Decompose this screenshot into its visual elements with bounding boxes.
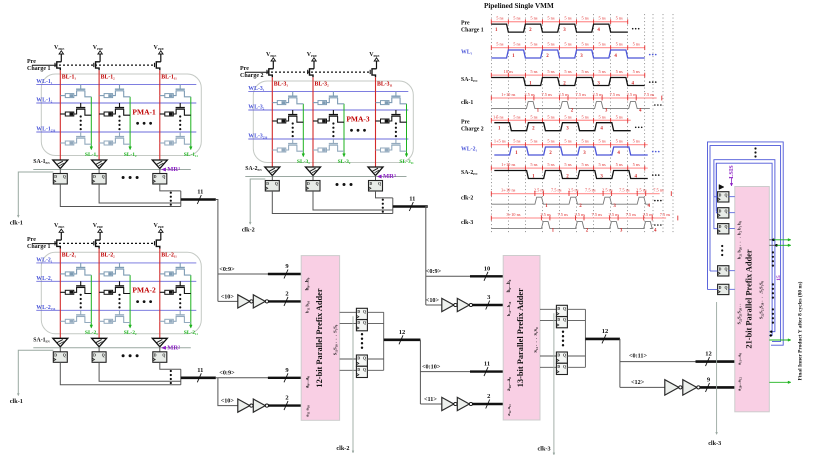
S output D flip-flop 4 bbox=[340, 369, 357, 371]
node a<10> input wire + inverter pair bbox=[218, 378, 238, 406]
svg-text:12: 12 bbox=[705, 351, 712, 358]
wire SL-12 source line bbox=[129, 97, 131, 148]
svg-text:5 ns: 5 ns bbox=[564, 69, 571, 74]
node a<12> wire + inverter pair bbox=[620, 386, 665, 388]
svg-text:Q: Q bbox=[563, 318, 566, 322]
dashed precharge gate line Pre Charge 1 bbox=[32, 64, 55, 66]
wire PMA-3 bus to 13-bit adder bbox=[426, 207, 428, 306]
svg-text:Q: Q bbox=[363, 368, 366, 372]
memristor cell R22 bbox=[119, 281, 121, 286]
clk-3 wire to LSIS bbox=[716, 302, 718, 433]
LSIS shift register feedback loops bbox=[708, 142, 784, 345]
svg-text:BL-31: BL-31 bbox=[274, 81, 289, 87]
S output dots bbox=[772, 251, 774, 253]
MR1 label bbox=[162, 168, 166, 171]
svg-text:2: 2 bbox=[285, 290, 288, 297]
svg-text:SL-21: SL-21 bbox=[85, 330, 98, 336]
svg-text:5 ns: 5 ns bbox=[513, 139, 520, 144]
memristor cell R12 bbox=[80, 281, 82, 286]
svg-text:PMA-1: PMA-1 bbox=[132, 107, 156, 116]
output bus 11 bits bbox=[181, 198, 216, 201]
sense amplifier SA column 1 bbox=[53, 338, 68, 347]
svg-text:<10>: <10> bbox=[426, 297, 440, 304]
svg-text:Q: Q bbox=[102, 175, 105, 179]
memristor cell R11 bbox=[80, 85, 82, 90]
wire PMA-2 bus to adder inputs bbox=[216, 377, 218, 379]
memristor cell R33 bbox=[179, 310, 181, 315]
svg-text:Pre: Pre bbox=[27, 237, 36, 243]
svg-text:clk-3: clk-3 bbox=[538, 446, 551, 453]
svg-text:LSIS: LSIS bbox=[728, 165, 735, 179]
svg-text:5 ns: 5 ns bbox=[496, 114, 503, 119]
memristor cell R11 bbox=[80, 263, 82, 268]
svg-text:Q: Q bbox=[275, 182, 278, 186]
svg-text:Q: Q bbox=[102, 353, 105, 357]
svg-text:Q: Q bbox=[316, 182, 319, 186]
svg-text:a10...a0: a10...a0 bbox=[507, 377, 512, 391]
memristor cell R22 bbox=[332, 110, 334, 115]
svg-text:WL1: WL1 bbox=[461, 50, 473, 56]
svg-text:7.5 ns: 7.5 ns bbox=[585, 188, 596, 193]
svg-text:SL-111: SL-111 bbox=[184, 152, 199, 158]
svg-text:7.5 ns: 7.5 ns bbox=[557, 212, 568, 217]
svg-text:D: D bbox=[93, 353, 96, 357]
svg-text:D: D bbox=[154, 353, 157, 357]
svg-text:5 ns: 5 ns bbox=[496, 16, 503, 21]
wire WL-22 word line bbox=[36, 280, 196, 282]
wire WL-21 word line bbox=[36, 262, 196, 264]
sense amplifier SA column 3 bbox=[368, 167, 383, 176]
S output D flip-flop (13-bit) 1 bbox=[540, 308, 556, 310]
svg-text:D: D bbox=[93, 175, 96, 179]
column dots bbox=[179, 115, 181, 117]
svg-text:11: 11 bbox=[484, 361, 490, 368]
svg-text:11: 11 bbox=[197, 189, 203, 196]
svg-text:Q: Q bbox=[725, 267, 728, 271]
column dots bbox=[292, 122, 294, 124]
D flip-flop column 3 bbox=[369, 181, 383, 192]
svg-text:clk-3: clk-3 bbox=[461, 220, 473, 226]
svg-text:10 ns: 10 ns bbox=[504, 69, 514, 74]
memristor cell R13 bbox=[292, 139, 294, 144]
svg-text:7.5 ns: 7.5 ns bbox=[644, 92, 655, 97]
wire WL-1256 word line bbox=[36, 131, 196, 133]
wire BL-311 bit line bbox=[375, 77, 377, 167]
column dots bbox=[179, 294, 181, 296]
D flip-flop column 1 bbox=[53, 174, 67, 185]
svg-text:clk-3: clk-3 bbox=[708, 440, 721, 447]
wire PMA-1 bus to adder inputs bbox=[216, 200, 218, 302]
svg-text:WL-3256: WL-3256 bbox=[248, 134, 267, 140]
svg-text:SL-11: SL-11 bbox=[85, 152, 98, 158]
svg-text:5 ns: 5 ns bbox=[530, 42, 537, 47]
svg-text:2.5 ns: 2.5 ns bbox=[558, 92, 569, 97]
svg-text:D: D bbox=[557, 365, 560, 369]
svg-text:VPRE: VPRE bbox=[93, 223, 103, 229]
svg-text:21-bit Parallel Prefix Adder: 21-bit Parallel Prefix Adder bbox=[745, 249, 754, 348]
wire BL-211 bit line bbox=[159, 249, 161, 339]
svg-text:5 ns: 5 ns bbox=[581, 42, 588, 47]
svg-text:b12...b10: b12...b10 bbox=[506, 301, 512, 316]
node b<10> input wire + inverter pair bbox=[218, 300, 238, 302]
svg-text:WL-22: WL-22 bbox=[36, 276, 53, 282]
12-bit parallel prefix adder U1 bbox=[301, 256, 339, 421]
S output D flip-flop (13-bit) 2 bbox=[540, 320, 556, 322]
svg-text:5 ns: 5 ns bbox=[616, 139, 623, 144]
svg-text:SA-1EN: SA-1EN bbox=[461, 77, 478, 83]
svg-text:Charge 1: Charge 1 bbox=[27, 244, 51, 250]
svg-text:b11 b10: b11 b10 bbox=[305, 300, 311, 313]
S output D flip-flop 1 bbox=[340, 311, 357, 313]
memristor cell R33 bbox=[395, 139, 397, 144]
memristor cell R32 bbox=[179, 281, 181, 286]
svg-text:<10>: <10> bbox=[221, 294, 235, 301]
svg-text:5 ns: 5 ns bbox=[599, 69, 606, 74]
wire WL-11 word line bbox=[36, 84, 196, 86]
svg-text:a12 a11: a12 a11 bbox=[506, 404, 512, 416]
clk-2 wire to flip-flops bbox=[352, 316, 354, 452]
svg-text:Q: Q bbox=[563, 365, 566, 369]
svg-text:D: D bbox=[307, 182, 310, 186]
precharge PMOS transistor column 3 bbox=[156, 62, 161, 71]
memristor cell R23 bbox=[119, 310, 121, 315]
svg-text:PMA-3: PMA-3 bbox=[346, 114, 370, 123]
svg-text:5 ns: 5 ns bbox=[599, 42, 606, 47]
svg-text:S22S21S20 . . .S2S1S0: S22S21S20 . . .S2S1S0 bbox=[759, 280, 765, 319]
svg-text:VPRE: VPRE bbox=[93, 45, 103, 51]
svg-text:Q: Q bbox=[378, 182, 381, 186]
svg-text:b9...b0: b9...b0 bbox=[306, 277, 311, 290]
wire WL-3256 word line bbox=[248, 138, 408, 140]
svg-text:D: D bbox=[719, 267, 722, 271]
svg-text:5 ns: 5 ns bbox=[513, 42, 520, 47]
collector wires to output bus bbox=[376, 191, 393, 198]
svg-text:Pipelined Single VMM: Pipelined Single VMM bbox=[484, 2, 554, 10]
svg-text:Charge 2: Charge 2 bbox=[240, 73, 264, 79]
svg-text:<0:10>: <0:10> bbox=[422, 364, 441, 371]
memristor cell R21 bbox=[119, 263, 121, 268]
svg-text:2: 2 bbox=[487, 393, 490, 400]
svg-text:7.5 ns: 7.5 ns bbox=[660, 212, 671, 217]
svg-text:2.5 ns: 2.5 ns bbox=[643, 212, 654, 217]
svg-text:5 ns: 5 ns bbox=[547, 114, 554, 119]
svg-text:5 ns: 5 ns bbox=[581, 69, 588, 74]
svg-text:Q: Q bbox=[162, 175, 165, 179]
wire BL-31 bit line bbox=[271, 77, 273, 167]
svg-text:Q: Q bbox=[725, 209, 728, 213]
wire BL-11 bit line bbox=[59, 70, 61, 160]
D flip-flop column 1 bbox=[53, 352, 67, 363]
21-bit parallel prefix adder U3 bbox=[735, 187, 770, 412]
wire BL-32 bit line bbox=[312, 77, 314, 167]
sense amp enable line SA-1 bbox=[33, 347, 191, 349]
S output D flip-flop 3 bbox=[340, 358, 357, 360]
svg-text:Final Inner Product Y after 8: Final Inner Product Y after 8 cycles (80… bbox=[797, 281, 804, 380]
sense amp enable line SA-1 bbox=[33, 169, 191, 171]
sense amplifier SA column 2 bbox=[92, 338, 107, 347]
svg-text:5 ns: 5 ns bbox=[496, 42, 503, 47]
svg-text:D: D bbox=[54, 175, 57, 179]
memristor cell R11 bbox=[292, 92, 294, 97]
svg-text:a20...a12: a20...a12 bbox=[737, 377, 743, 391]
svg-text:5 ns: 5 ns bbox=[633, 139, 640, 144]
memristor cell R32 bbox=[179, 103, 181, 108]
output bus 11 bits bbox=[393, 205, 428, 208]
svg-text:Q: Q bbox=[162, 353, 165, 357]
precharge PMOS transistor column 1 bbox=[269, 69, 274, 78]
svg-text:D: D bbox=[719, 225, 722, 229]
D flip-flop column 1 bbox=[265, 181, 279, 192]
node b<0:9> wire (13-bit) bbox=[426, 275, 503, 277]
svg-text:2: 2 bbox=[285, 395, 288, 402]
precharge PMOS transistor column 3 bbox=[372, 69, 377, 78]
timing grid dashed lines bbox=[490, 14, 492, 233]
svg-text:clk-1: clk-1 bbox=[10, 398, 23, 405]
wire SL-211 source line bbox=[190, 275, 192, 326]
memristor cell R13 bbox=[80, 310, 82, 315]
svg-text:5 ns: 5 ns bbox=[599, 16, 606, 21]
svg-text:5 ns: 5 ns bbox=[633, 42, 640, 47]
svg-text:1+10 ns: 1+10 ns bbox=[501, 162, 515, 167]
svg-text:2.5 ns: 2.5 ns bbox=[574, 212, 585, 217]
svg-text:Pre: Pre bbox=[27, 59, 36, 65]
svg-text:Q: Q bbox=[563, 307, 566, 311]
svg-text:5 ns: 5 ns bbox=[513, 16, 520, 21]
svg-text:a11...a0: a11...a0 bbox=[737, 352, 743, 365]
wire SL-21 source line bbox=[90, 275, 92, 326]
LSIS D flip-flop b21 bbox=[718, 284, 729, 294]
svg-text:WL-31: WL-31 bbox=[248, 86, 264, 92]
svg-text:7.5 ns: 7.5 ns bbox=[626, 212, 637, 217]
svg-text:a9...a0: a9...a0 bbox=[306, 376, 311, 389]
memristor cell R23 bbox=[332, 139, 334, 144]
memristor cell R32 bbox=[395, 110, 397, 115]
svg-text:5 ns: 5 ns bbox=[616, 42, 623, 47]
svg-text:12: 12 bbox=[602, 328, 609, 335]
svg-text:5 ns: 5 ns bbox=[616, 16, 623, 21]
memristor cell R21 bbox=[119, 85, 121, 90]
wire WL-2256 word line bbox=[36, 309, 196, 311]
wire SL-32 source line bbox=[343, 104, 345, 155]
svg-text:BL-111: BL-111 bbox=[161, 74, 177, 80]
svg-text:<12>: <12> bbox=[631, 379, 645, 386]
svg-text:D: D bbox=[370, 182, 373, 186]
LSIS D flip-flop 3 bbox=[718, 224, 729, 234]
svg-text:3+10 ns: 3+10 ns bbox=[506, 212, 520, 217]
LSIS D flip-flop 1 bbox=[718, 192, 729, 202]
node b<0:9> input wire bbox=[218, 273, 301, 275]
svg-text:10: 10 bbox=[484, 265, 491, 272]
svg-text:D: D bbox=[719, 286, 722, 290]
memristor cell R21 bbox=[332, 92, 334, 97]
svg-text:2.5 ns: 2.5 ns bbox=[568, 188, 579, 193]
D flip-flop column 3 bbox=[153, 352, 167, 363]
svg-text:11: 11 bbox=[197, 367, 203, 374]
sense amplifier SA column 2 bbox=[306, 167, 321, 176]
svg-text:BL-22: BL-22 bbox=[101, 253, 116, 259]
svg-text:5 ns: 5 ns bbox=[616, 114, 623, 119]
svg-text:BL-32: BL-32 bbox=[315, 81, 330, 87]
svg-text:5 ns: 5 ns bbox=[616, 69, 623, 74]
svg-text:5 ns: 5 ns bbox=[581, 139, 588, 144]
svg-text:7.5 ns: 7.5 ns bbox=[551, 188, 562, 193]
precharge PMOS transistor column 2 bbox=[96, 240, 101, 249]
wire SL-11 source line bbox=[90, 97, 92, 148]
precharge PMOS transistor column 1 bbox=[57, 62, 62, 71]
svg-text:b21 b20 . . . b2 b1 b0: b21 b20 . . . b2 b1 b0 bbox=[737, 220, 743, 259]
svg-text:5 ns: 5 ns bbox=[530, 69, 537, 74]
svg-text:5 ns: 5 ns bbox=[547, 16, 554, 21]
wire 12-bit result to 13-bit adder bbox=[419, 340, 421, 404]
svg-text:BL-11: BL-11 bbox=[62, 74, 77, 80]
wire 13-bit result to 21-bit adder bbox=[619, 339, 621, 388]
svg-text:Q: Q bbox=[725, 193, 728, 197]
wire SL-111 source line bbox=[190, 97, 192, 148]
wire WL-12 word line bbox=[36, 102, 196, 104]
collector wires to output bus bbox=[160, 184, 181, 191]
svg-text:2.5 ns: 2.5 ns bbox=[534, 188, 545, 193]
svg-text:SL-32: SL-32 bbox=[338, 159, 351, 165]
svg-text:Charge 1: Charge 1 bbox=[461, 28, 484, 34]
svg-text:2.5 ns: 2.5 ns bbox=[627, 92, 638, 97]
svg-text:5 ns: 5 ns bbox=[633, 162, 640, 167]
svg-text:Charge 1: Charge 1 bbox=[27, 66, 51, 72]
svg-text:5 ns: 5 ns bbox=[530, 114, 537, 119]
memristor cell R13 bbox=[80, 132, 82, 137]
svg-text:Q: Q bbox=[725, 225, 728, 229]
svg-text:VPRE: VPRE bbox=[54, 223, 64, 229]
D flip-flop column 2 bbox=[306, 181, 320, 192]
svg-text:7.5 ns: 7.5 ns bbox=[592, 212, 603, 217]
final output arrows bbox=[769, 239, 773, 241]
column dots bbox=[80, 294, 82, 296]
svg-text:SL-12: SL-12 bbox=[124, 152, 137, 158]
svg-text:5 ns: 5 ns bbox=[581, 16, 588, 21]
precharge PMOS transistor column 1 bbox=[57, 240, 62, 249]
svg-text:2.5 ns: 2.5 ns bbox=[540, 212, 551, 217]
svg-text:<0:9>: <0:9> bbox=[219, 370, 235, 377]
svg-text:SL-311: SL-311 bbox=[399, 159, 414, 165]
svg-text:D: D bbox=[357, 310, 360, 314]
svg-text:5 ns: 5 ns bbox=[530, 139, 537, 144]
svg-text:Pre: Pre bbox=[461, 119, 470, 125]
svg-text:Q: Q bbox=[63, 175, 66, 179]
svg-text:WL-2256: WL-2256 bbox=[36, 305, 56, 311]
svg-text:D: D bbox=[54, 353, 57, 357]
wire SL-31 source line bbox=[302, 104, 304, 155]
svg-text:Q: Q bbox=[563, 354, 566, 358]
svg-text:S11S10 . . . S1S0: S11S10 . . . S1S0 bbox=[333, 324, 339, 355]
svg-text:PMA-2: PMA-2 bbox=[132, 286, 156, 295]
svg-text:VPRE: VPRE bbox=[266, 52, 276, 58]
output bus 11 bits bbox=[181, 376, 216, 379]
13-bit result bus bbox=[584, 309, 586, 367]
svg-text:D: D bbox=[154, 175, 157, 179]
svg-text:SL-22: SL-22 bbox=[124, 330, 137, 336]
svg-text:5 ns: 5 ns bbox=[564, 114, 571, 119]
svg-text:<0:9>: <0:9> bbox=[426, 268, 442, 275]
svg-text:7.5 ns: 7.5 ns bbox=[610, 92, 621, 97]
sense amplifier SA column 3 bbox=[152, 160, 167, 169]
svg-text:3+10 ns: 3+10 ns bbox=[501, 188, 515, 193]
svg-text:<10>: <10> bbox=[221, 398, 235, 405]
svg-text:Q: Q bbox=[363, 357, 366, 361]
sense amplifier SA column 1 bbox=[53, 160, 68, 169]
svg-text:BL-21: BL-21 bbox=[62, 253, 77, 259]
node b<10> wire + inverter pair (13-bit) bbox=[426, 304, 442, 306]
S output D flip-flop 2 bbox=[340, 323, 357, 325]
node a<0:10> wire bbox=[420, 371, 503, 373]
svg-text:5 ns: 5 ns bbox=[581, 162, 588, 167]
node a<11> wire + inverter pair bbox=[420, 403, 441, 405]
svg-text:5 ns: 5 ns bbox=[547, 139, 554, 144]
svg-text:2.5 ns: 2.5 ns bbox=[609, 212, 620, 217]
MR2 label bbox=[162, 346, 166, 349]
svg-text:D: D bbox=[557, 354, 560, 358]
sense amplifier SA column 3 bbox=[152, 338, 167, 347]
column dots bbox=[332, 122, 334, 124]
svg-text:clk-2: clk-2 bbox=[336, 445, 349, 452]
svg-text:12-bit Parallel Prefix Adder: 12-bit Parallel Prefix Adder bbox=[315, 288, 324, 387]
svg-text:5 ns: 5 ns bbox=[547, 69, 554, 74]
memristor cell R12 bbox=[80, 103, 82, 108]
svg-text:7.5 ns: 7.5 ns bbox=[619, 188, 630, 193]
svg-text:VPRE: VPRE bbox=[154, 45, 164, 51]
svg-text:2.5 ns: 2.5 ns bbox=[593, 92, 604, 97]
column dots bbox=[118, 294, 120, 296]
memristor cell R12 bbox=[292, 110, 294, 115]
D flip-flop column 2 bbox=[92, 352, 106, 363]
svg-text:5 ns: 5 ns bbox=[633, 69, 640, 74]
wire WL-32 word line bbox=[248, 109, 408, 111]
svg-text:BL-311: BL-311 bbox=[377, 81, 393, 87]
S output D flip-flop (13-bit) 4 bbox=[540, 366, 556, 368]
precharge PMOS transistor column 2 bbox=[96, 62, 101, 71]
svg-text:5 ns: 5 ns bbox=[599, 114, 606, 119]
svg-text:VPRE: VPRE bbox=[154, 223, 164, 229]
svg-text:5 ns: 5 ns bbox=[616, 162, 623, 167]
svg-text:5 ns: 5 ns bbox=[547, 42, 554, 47]
clk-1 clock wire bbox=[18, 172, 53, 216]
MR3 label bbox=[378, 175, 382, 178]
svg-text:BL-211: BL-211 bbox=[161, 253, 177, 259]
svg-text:VPRE: VPRE bbox=[307, 52, 317, 58]
svg-text:D: D bbox=[357, 368, 360, 372]
svg-text:D: D bbox=[719, 193, 722, 197]
wire BL-21 bit line bbox=[59, 249, 61, 339]
svg-text:S12 . . . S1S0: S12 . . . S1S0 bbox=[533, 327, 539, 353]
svg-text:SL-211: SL-211 bbox=[184, 330, 199, 336]
column dots bbox=[80, 115, 82, 117]
memristor cell R31 bbox=[395, 92, 397, 97]
svg-text:12: 12 bbox=[399, 329, 406, 336]
svg-text:2.5 ns: 2.5 ns bbox=[602, 188, 613, 193]
svg-text:11: 11 bbox=[409, 196, 415, 203]
svg-text:Q: Q bbox=[363, 321, 366, 325]
svg-text:SA-2EN: SA-2EN bbox=[461, 170, 478, 176]
svg-text:SA-1EN: SA-1EN bbox=[33, 159, 50, 165]
S output D flip-flop (13-bit) 3 bbox=[540, 355, 556, 357]
PMA-3 array background bbox=[253, 81, 413, 163]
wire SL-311 source line bbox=[406, 104, 408, 155]
dashed precharge gate line Pre Charge 2 bbox=[245, 71, 267, 73]
svg-text:5 ns: 5 ns bbox=[564, 139, 571, 144]
svg-text:SL-31: SL-31 bbox=[297, 159, 310, 165]
svg-text:D: D bbox=[557, 307, 560, 311]
dashed precharge gate line Pre Charge 1 bbox=[32, 243, 55, 245]
svg-text:5 ns: 5 ns bbox=[530, 162, 537, 167]
clk-1 clock wire bbox=[18, 350, 53, 394]
